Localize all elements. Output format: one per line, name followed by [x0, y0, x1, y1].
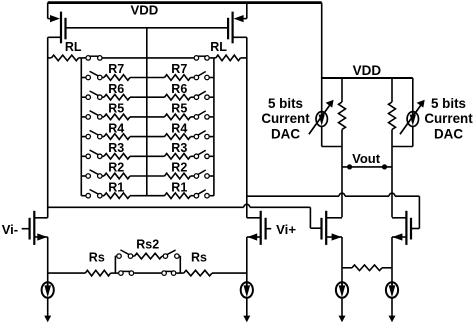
- wire Rs line left: [48, 272, 86, 274]
- svg-text:R1: R1: [108, 180, 124, 194]
- label 5 bits Current DAC right: [424, 96, 473, 142]
- wire Rs line right: [212, 272, 247, 274]
- current DAC left (5 bits): [309, 100, 334, 134]
- transistor NMOS Q5 output buffer left: [322, 211, 343, 245]
- svg-text:R2: R2: [171, 161, 187, 175]
- label R3 left: [108, 141, 124, 155]
- svg-text:Vi+: Vi+: [276, 222, 296, 237]
- wire deg resistor left lead: [342, 267, 352, 269]
- label R1 left: [108, 180, 124, 194]
- svg-text:R4: R4: [171, 121, 187, 135]
- svg-text:Rs: Rs: [191, 251, 207, 265]
- wire PMOS gate line: [66, 27, 229, 29]
- resistor R7 left with switch: [81, 71, 147, 80]
- current source I4: [386, 282, 398, 297]
- label R3 right: [171, 141, 187, 155]
- label R4 left: [108, 121, 124, 135]
- resistor R2 left with switch: [81, 170, 147, 179]
- svg-text:VDD: VDD: [130, 3, 158, 18]
- resistor R4 right with switch: [147, 131, 214, 140]
- net VDD top rail: [48, 1, 322, 4]
- label R2 right: [171, 161, 187, 175]
- ground arrow I4: [389, 298, 396, 323]
- switch S-Rs2-left: [117, 250, 133, 258]
- wire left drain node (M1 drain / RL / Vi- drain): [47, 37, 49, 218]
- label 5 bits Current DAC left: [261, 96, 310, 142]
- resistor source degeneration: [352, 265, 382, 271]
- wire deg resistor right lead: [382, 267, 392, 269]
- ground arrow I2: [243, 298, 250, 323]
- resistor R5 right with switch: [147, 111, 214, 120]
- switch S-main-right: [162, 271, 176, 276]
- wire right drain node (M2 drain / RL / Vi+ drain): [246, 37, 248, 218]
- svg-text:R5: R5: [108, 102, 124, 116]
- label Rs2: [136, 238, 159, 252]
- label R2 left: [108, 161, 124, 175]
- transistor PMOS M1 (left load): [48, 3, 66, 44]
- resistor R6 left with switch: [81, 91, 147, 100]
- wire Rs2 branch up left: [114, 256, 117, 273]
- resistor R6 right with switch: [147, 91, 214, 100]
- resistor R5 left with switch: [81, 111, 147, 120]
- net VDD rail right section: [322, 77, 413, 79]
- net label VDD right: [353, 63, 382, 78]
- resistor R3 left with switch: [81, 150, 147, 159]
- junction dot Vout right: [382, 164, 387, 169]
- current source I1: [42, 282, 54, 297]
- wire RL row crossbar: [103, 57, 194, 59]
- ground arrow I3: [339, 298, 346, 323]
- label R4 right: [171, 121, 187, 135]
- wire rail stub right top: [210, 57, 214, 59]
- svg-text:Rs: Rs: [89, 251, 105, 265]
- svg-text:Current: Current: [261, 111, 310, 126]
- label R7 right: [171, 62, 187, 76]
- svg-text:R1: R1: [171, 180, 187, 194]
- label R6 right: [171, 82, 187, 96]
- resistor load left DAC branch / wire to Q5 drain: [339, 78, 346, 217]
- svg-text:Rs2: Rs2: [136, 238, 159, 252]
- label R7 left: [108, 62, 124, 76]
- label R1 right: [171, 180, 187, 194]
- svg-text:R6: R6: [171, 82, 187, 96]
- svg-text:DAC: DAC: [434, 127, 463, 142]
- switch top-right: [194, 56, 209, 61]
- svg-text:5 bits: 5 bits: [431, 96, 466, 111]
- wire Rs2 branch down right: [179, 256, 182, 273]
- resistor RL left: [48, 55, 82, 61]
- svg-text:DAC: DAC: [271, 127, 300, 142]
- label Vi-: [2, 222, 18, 237]
- wire Vi- source to tail: [47, 237, 49, 283]
- label Rs right: [191, 251, 207, 265]
- wire Vi+ drain node to Q6 gate (hops over DAC branches): [247, 193, 420, 228]
- resistor R1 right with switch: [147, 190, 214, 199]
- ground arrow I1: [44, 298, 51, 323]
- wire Q5 source down: [341, 237, 343, 283]
- wire bank left rail: [80, 58, 82, 196]
- svg-text:R5: R5: [171, 102, 187, 116]
- svg-text:R3: R3: [171, 141, 187, 155]
- wire Vi- drain node to Q5 gate (hops over Vi+ drain): [48, 204, 321, 228]
- wire Q6 source down: [391, 237, 393, 283]
- svg-text:R4: R4: [108, 121, 124, 135]
- wire VDD to DAC right: [412, 78, 414, 112]
- current source I3: [336, 282, 348, 297]
- label Vi+: [276, 222, 296, 237]
- transistor PMOS M2 (right load): [228, 3, 247, 44]
- resistor load right DAC branch / wire to Q6 drain: [389, 78, 396, 217]
- transistor NMOS Q6 output buffer right: [392, 211, 411, 245]
- resistor RL right: [214, 55, 247, 61]
- wire between main switches: [134, 272, 161, 274]
- label R5 right: [171, 102, 187, 116]
- svg-text:R2: R2: [108, 161, 124, 175]
- svg-text:VDD: VDD: [353, 63, 382, 78]
- svg-text:RL: RL: [65, 40, 82, 54]
- svg-text:Vi-: Vi-: [2, 222, 18, 237]
- switch top-left: [86, 56, 102, 61]
- svg-text:R6: R6: [108, 82, 124, 96]
- label R5 left: [108, 102, 124, 116]
- current source I2: [241, 282, 253, 297]
- wire bank center line: [146, 28, 148, 196]
- net label VDD: [130, 3, 158, 18]
- svg-text:Current: Current: [424, 111, 473, 126]
- svg-text:R3: R3: [108, 141, 124, 155]
- transistor NMOS M4 input Vi+: [247, 211, 271, 245]
- resistor R3 right with switch: [147, 150, 214, 159]
- label RL right: [210, 40, 227, 54]
- wire switch to Rs right: [176, 272, 183, 274]
- wire VDD rail to right section: [321, 3, 323, 78]
- resistor Rs right: [184, 270, 212, 276]
- svg-text:R7: R7: [171, 62, 187, 76]
- svg-text:5 bits: 5 bits: [268, 96, 303, 111]
- wire bank right rail: [213, 58, 215, 196]
- wire rail stub left top: [81, 57, 85, 59]
- label R6 left: [108, 82, 124, 96]
- resistor Rs2: [133, 253, 163, 259]
- wire DAC right to join: [392, 127, 413, 147]
- wire Rs to switch section: [111, 272, 119, 274]
- junction dot Vout left: [347, 164, 352, 169]
- switch S-main-left: [119, 271, 134, 276]
- resistor R1 left with switch: [81, 190, 147, 199]
- wire DAC left to join: [322, 127, 342, 147]
- label RL left: [65, 40, 82, 54]
- resistor R4 left with switch: [81, 130, 147, 139]
- label Rs left: [89, 251, 105, 265]
- wire Vi+ source to tail: [246, 237, 248, 283]
- current DAC right (5 bits): [400, 100, 425, 134]
- svg-text:RL: RL: [210, 40, 227, 54]
- transistor NMOS M3 input Vi-: [22, 211, 48, 245]
- switch S-Rs2-right: [163, 250, 179, 258]
- svg-text:R7: R7: [108, 62, 124, 76]
- resistor Rs left: [85, 270, 110, 276]
- net label Vout: [352, 151, 381, 166]
- net Vout line: [342, 166, 392, 168]
- resistor R2 right with switch: [147, 170, 214, 179]
- wire VDD to DAC left: [321, 78, 323, 112]
- resistor R7 right with switch: [147, 72, 214, 81]
- svg-text:Vout: Vout: [352, 151, 381, 166]
